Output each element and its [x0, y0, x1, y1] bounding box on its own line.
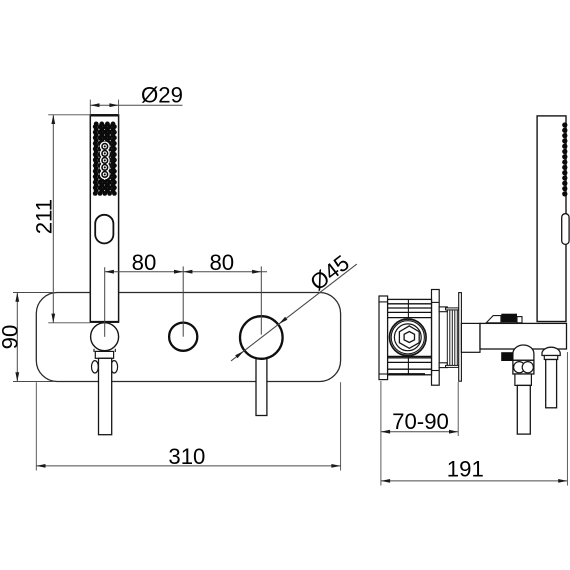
svg-text:211: 211 [31, 199, 56, 234]
diverter centerline [182, 266, 184, 336]
svg-text:70-90: 70-90 [392, 409, 449, 434]
mixer knob Ø45 (front) [240, 316, 283, 359]
hand shower wand (side view) [537, 116, 566, 322]
mixer lever (side view) [501, 345, 534, 434]
valve cartridge circle + hex socket [390, 319, 427, 356]
valve body (side view) [388, 299, 432, 374]
supply pipe stub top [439, 307, 447, 312]
dimension 191 (total depth) [381, 352, 568, 486]
dimension Ø45 leader [231, 250, 357, 361]
dimension Ø29 [90, 82, 183, 115]
spray face dot pattern [93, 122, 117, 196]
wand side nozzle bumps [562, 122, 567, 196]
wand centerline [104, 267, 106, 337]
dimension 80 (diverter to mixer) [183, 250, 267, 275]
svg-text:80: 80 [132, 250, 157, 275]
dimension 211 [31, 115, 90, 323]
threaded adjustment section [446, 308, 459, 368]
valve front mounting tab (side view) [432, 290, 440, 386]
holder bracket [94, 349, 115, 359]
holder lever handle (front) [99, 358, 112, 434]
valve back bracket (side view) [379, 296, 388, 380]
mixer knob centerline [260, 266, 262, 334]
mixer lever handle (front) [256, 352, 267, 416]
dimension 90 (plate height) [0, 293, 55, 382]
spray center nozzles (5 ringed) [100, 141, 110, 179]
spout collar [461, 323, 480, 352]
diverter button (front) [169, 323, 197, 351]
dimension 70-90 (wall depth) [381, 381, 458, 486]
holder lever (side view) [542, 347, 560, 408]
hand shower holder knob (front) [91, 323, 119, 351]
svg-text:90: 90 [0, 325, 23, 350]
svg-text:191: 191 [447, 457, 484, 482]
svg-text:310: 310 [168, 444, 205, 469]
wand side button [562, 214, 569, 245]
hand shower wand (front view) [90, 115, 119, 322]
dimension 80 (wand to diverter) [105, 250, 184, 275]
holder side lobes [92, 361, 118, 373]
wand mode button (front) [95, 215, 113, 244]
dimension 310 (plate width) [36, 382, 340, 470]
mounting plate (front view) [36, 293, 340, 382]
horizontal spout arm (side view) [480, 323, 567, 349]
supply pipe stub bottom [439, 363, 447, 368]
diverter knob (side, black) [486, 314, 522, 323]
wall escutcheon plate (side view) [459, 293, 462, 382]
svg-text:80: 80 [209, 250, 234, 275]
svg-text:Ø29: Ø29 [141, 82, 183, 107]
svg-text:Ø45: Ø45 [305, 250, 353, 295]
